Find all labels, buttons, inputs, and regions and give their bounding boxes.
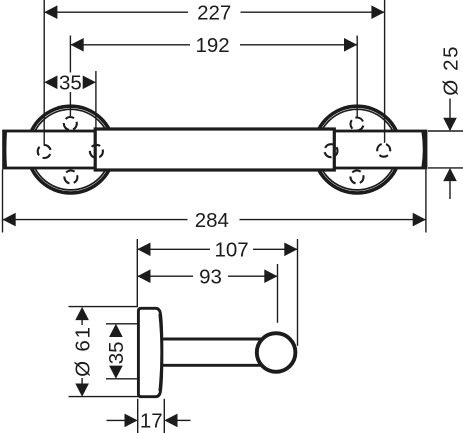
dimension 192 [71, 34, 358, 57]
screw hole right rosette right [377, 144, 390, 157]
right rosette inner circle [317, 109, 398, 190]
left rosette outer circle [27, 106, 114, 193]
screw hole right rosette left [325, 144, 338, 157]
extension line left rosette centre lower [69, 92, 71, 116]
svg-text:93: 93 [199, 266, 222, 289]
svg-text:35: 35 [59, 72, 82, 95]
screw hole left rosette top [64, 117, 77, 130]
left end cap seam [4, 132, 7, 167]
dimension 35 hole spacing top view [44, 72, 96, 95]
extension line flange bottom (diameter 61) [69, 396, 139, 398]
svg-text:Ø 61: Ø 61 [71, 325, 94, 377]
support arm bottom edge [161, 364, 271, 367]
extension line bar outer edge (107) [297, 239, 299, 346]
bar tube body [4, 131, 426, 168]
screw hole left rosette left [38, 145, 51, 158]
flange dome highlight arc [159, 314, 161, 391]
right rosette outer circle [314, 106, 401, 193]
dimension 107 [137, 239, 297, 262]
bar cross-section circle [257, 333, 296, 372]
extension line bar left end (284) [2, 170, 4, 233]
extension line flange top (diameter 61) [69, 306, 139, 308]
screw hole left rosette right [90, 145, 103, 158]
extension line hole bottom (35 side) [106, 378, 138, 380]
extension line bar top edge (diameter 25) [428, 130, 463, 132]
extension line flange back lower (17) [163, 399, 165, 433]
svg-text:17: 17 [140, 410, 163, 433]
screw hole left rosette bottom [64, 171, 77, 184]
svg-text:227: 227 [197, 2, 231, 25]
left rosette inner circle [30, 109, 111, 190]
extension line right hole (227) [384, 0, 386, 143]
dimension diameter 61 [71, 307, 94, 397]
extension line bar right end (284) [425, 170, 427, 233]
extension line right rosette centre (192) [356, 36, 358, 117]
svg-text:284: 284 [195, 209, 229, 232]
extension line left hole (227 / 35) [43, 0, 45, 144]
svg-text:192: 192 [195, 34, 229, 57]
extension line 35 right [95, 71, 97, 128]
screw hole right rosette bottom [351, 171, 364, 184]
screw hole right rosette top [351, 118, 364, 131]
extension line hole top (35 side) [106, 323, 138, 325]
svg-text:Ø 25: Ø 25 [440, 45, 463, 96]
dimension 17 [107, 410, 191, 433]
extension line left rosette centre upper (192) [69, 36, 71, 73]
extension line flange front lower (17) [137, 399, 139, 433]
dimension 284 [3, 209, 426, 232]
svg-text:107: 107 [214, 239, 248, 262]
extension line bar bottom edge (diameter 25) [428, 167, 463, 169]
right end cap [422, 132, 426, 167]
dimension 93 [137, 266, 277, 289]
support arm top edge [161, 338, 271, 341]
grip sleeve [95, 129, 334, 170]
extension line flange wall side (107/93) [136, 239, 138, 307]
dimension 227 [44, 2, 384, 25]
wall flange side view [138, 308, 162, 396]
dimension diameter 25 [440, 45, 463, 199]
svg-text:35: 35 [105, 341, 128, 364]
dimension 35 side view [105, 324, 128, 379]
extension line bar centre (93) [277, 264, 279, 323]
